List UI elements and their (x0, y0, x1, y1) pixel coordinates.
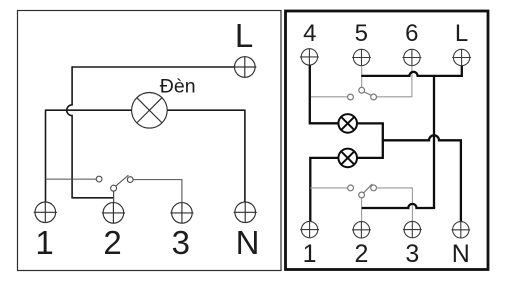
switch SW2 right contact (371, 94, 377, 100)
switch SW2 pivot (359, 87, 365, 93)
svg-text:2: 2 (354, 240, 368, 268)
wire: lamp left to terminal 1 drop (46, 109, 132, 111)
svg-text:4: 4 (303, 20, 316, 47)
svg-text:L: L (235, 17, 253, 54)
wire: upper thin from terminal-4 drop to left contact (310, 96, 348, 98)
terminal 3 (right panel) (403, 221, 422, 237)
terminal 1 (right panel) (300, 221, 319, 237)
wire: vertical to terminal 1 (45, 110, 47, 203)
terminal 2 (left panel) (102, 203, 125, 224)
terminal N (left panel) (234, 202, 257, 223)
svg-text:1: 1 (35, 224, 53, 261)
switch SW1 left contact (96, 176, 102, 182)
svg-text:2: 2 (103, 224, 121, 261)
svg-text:6: 6 (405, 20, 418, 47)
terminal L (right panel) (452, 49, 471, 65)
switch SW1 (left panel): wire from terminal-1 drop to left contact (46, 178, 97, 180)
svg-text:L: L (455, 20, 468, 47)
wire: lamp right to N drop (167, 109, 245, 111)
terminal 5 (right panel) (352, 49, 371, 65)
lamp Đèn (left panel) (132, 93, 168, 129)
wire: vertical to terminal N (244, 110, 246, 203)
right panel border (286, 11, 489, 270)
wire: terminal 6 thin drop to upper switch right contact (377, 66, 412, 97)
switch SW2 left contact (348, 94, 354, 100)
wire: SW3 pivot stem to terminal 2 (361, 198, 363, 222)
switch SW1 pivot stem to terminal 2 (113, 191, 115, 203)
terminal 4 (right panel) (300, 49, 319, 65)
switch SW1 pivot (111, 185, 117, 191)
wire: thick L bus from switch stem to terminal L with hop over terminal-6 wire (361, 66, 462, 76)
wire: terminal 1 thick riser to lamp 2 (310, 158, 338, 222)
terminal 3 (left panel) (170, 203, 193, 224)
wire: lamps common to N with hop over L branch (383, 135, 461, 221)
wire: right contact to terminal 3 (133, 180, 182, 203)
svg-text:1: 1 (303, 240, 317, 268)
terminal N (right panel) (451, 222, 470, 238)
wire: lower thin from terminal-1 riser to left contact (310, 187, 347, 189)
wire: thick lower bus with hop over terminal-3 wire (362, 204, 436, 208)
wire: thick vertical branch of L bus (433, 76, 435, 208)
svg-text:Đèn: Đèn (160, 76, 196, 98)
svg-text:3: 3 (405, 240, 419, 268)
wire: horizontal feed to terminal 2 stem (71, 197, 113, 199)
switch SW1 right contact (127, 177, 133, 183)
wire: vertical drop from L wire with hop over lamp wire (67, 66, 72, 198)
lamp DS2 (right panel lower) (338, 149, 357, 168)
switch SW3 left contact (348, 185, 354, 191)
switch SW3 pivot (359, 192, 365, 198)
switch SW3 right contact (371, 185, 377, 191)
terminal 6 (right panel) (403, 49, 422, 65)
svg-text:N: N (236, 224, 260, 261)
wire: terminal 5 stem to upper pivot (thin) (361, 66, 363, 88)
left panel border (18, 11, 282, 271)
switch SW3 lever (364, 184, 373, 193)
svg-text:3: 3 (172, 224, 190, 261)
terminal 1 (left panel) (34, 202, 57, 223)
lamp DS1 (right panel upper) (338, 114, 357, 133)
wire: lamp1 right + bracket + lamp2 right (357, 123, 383, 157)
svg-text:N: N (452, 240, 470, 268)
switch SW2 lever (364, 92, 371, 95)
switch SW1 lever (116, 175, 129, 186)
terminal 2 (right panel) (352, 222, 371, 238)
wire: SW3 right contact to terminal 3 (377, 188, 413, 222)
wire: L terminal to vertical drop (72, 66, 235, 68)
svg-text:5: 5 (355, 20, 368, 47)
terminal L (left panel) (233, 56, 256, 77)
wire: terminal 4 thick drop to lamp 1 (310, 65, 339, 123)
